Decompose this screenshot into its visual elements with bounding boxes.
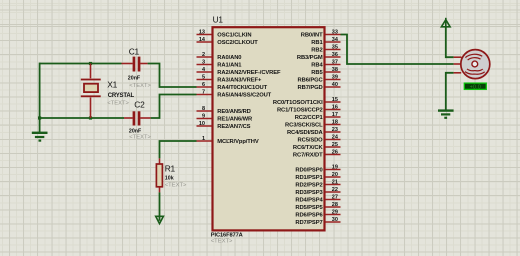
wire top rail OSC	[40, 63, 122, 65]
svg-text:+0.0: +0.0	[470, 84, 481, 90]
svg-text:R1: R1	[165, 163, 176, 173]
svg-text:24: 24	[332, 134, 339, 140]
U1 pin 24	[298, 134, 341, 143]
power symbol (+V)	[441, 18, 450, 28]
svg-text:6: 6	[202, 82, 205, 88]
svg-text:RC7/RX/DT: RC7/RX/DT	[293, 153, 323, 159]
U1 pin 1	[197, 136, 259, 145]
svg-text:36: 36	[332, 52, 338, 58]
U1 pin 28	[295, 202, 340, 211]
svg-text:33: 33	[332, 29, 338, 35]
svg-text:1: 1	[202, 136, 205, 142]
svg-text:RC0/T1OSO/T1CKI: RC0/T1OSO/T1CKI	[273, 100, 323, 106]
node junction bottom rail / crystal	[89, 116, 92, 119]
U1 pin 35	[311, 44, 340, 53]
part label PIC16F877A	[211, 232, 243, 244]
svg-text:28: 28	[332, 202, 338, 208]
U1 pin 38	[311, 67, 340, 76]
svg-text:OSC1/CLKIN: OSC1/CLKIN	[217, 33, 251, 39]
U1 pin 15	[273, 97, 341, 106]
U1 pin 5	[197, 74, 262, 83]
wire C1 to pin6	[148, 64, 197, 88]
svg-text:RD2/PSP2: RD2/PSP2	[295, 183, 322, 189]
node junction top rail / crystal	[89, 62, 92, 65]
svg-text:RA4/T0CKI/C1OUT: RA4/T0CKI/C1OUT	[217, 85, 267, 91]
svg-text:RD7/PSP7: RD7/PSP7	[295, 220, 322, 226]
svg-text:<TEXT>: <TEXT>	[129, 83, 151, 89]
U1 pin 16	[277, 104, 341, 113]
U1 pin 9	[197, 113, 253, 122]
svg-text:14: 14	[199, 37, 206, 43]
svg-text:10k: 10k	[165, 175, 174, 181]
svg-text:16: 16	[332, 104, 338, 110]
U1 pin 6	[197, 82, 268, 91]
U1 pin 8	[197, 106, 251, 115]
svg-text:13: 13	[199, 29, 205, 35]
svg-text:RC2/CCP1: RC2/CCP1	[295, 115, 324, 121]
svg-text:34: 34	[332, 37, 339, 43]
resistor R1	[156, 158, 162, 192]
U1 pin 19	[295, 164, 340, 173]
svg-text:RC4/SDI/SDA: RC4/SDI/SDA	[287, 130, 324, 136]
svg-text:RB5: RB5	[311, 70, 323, 76]
svg-text:<TEXT>: <TEXT>	[107, 100, 129, 106]
ground (below motor)	[438, 111, 454, 118]
svg-text:RC5/SDO: RC5/SDO	[298, 138, 324, 144]
label C1 20nF	[128, 46, 152, 89]
label R1 10k	[165, 163, 187, 188]
svg-text:RC6/TX/CK: RC6/TX/CK	[293, 145, 324, 151]
svg-text:RB2: RB2	[311, 48, 322, 54]
svg-text:MCLR/Vpp/THV: MCLR/Vpp/THV	[217, 139, 259, 145]
crystal X1	[81, 64, 101, 119]
svg-text:RC3/SCK/SCL: RC3/SCK/SCL	[285, 123, 323, 129]
svg-text:26: 26	[332, 149, 338, 155]
svg-text:RD1/PSP1: RD1/PSP1	[295, 175, 323, 181]
capacitor C2	[124, 111, 151, 125]
svg-text:37: 37	[332, 59, 338, 65]
svg-text:<TEXT>: <TEXT>	[211, 239, 233, 245]
svg-text:5: 5	[202, 74, 205, 80]
svg-text:38: 38	[332, 67, 338, 73]
svg-text:20nF: 20nF	[129, 128, 142, 134]
wire motor pin - to ground	[446, 73, 454, 110]
U1 pin 33	[301, 29, 341, 38]
svg-text:RE0/AN5/RD: RE0/AN5/RD	[217, 109, 250, 115]
svg-text:C2: C2	[134, 100, 145, 110]
svg-text:30: 30	[332, 217, 338, 223]
svg-text:2: 2	[202, 52, 205, 58]
U1 pin 20	[295, 172, 340, 181]
svg-text:39: 39	[332, 74, 338, 80]
svg-text:RA0/AN0: RA0/AN0	[217, 55, 241, 61]
svg-text:<TEXT>: <TEXT>	[165, 183, 187, 189]
U1 pin 26	[293, 149, 341, 158]
U1 pin 10	[197, 121, 251, 130]
microcontroller U1 body	[213, 27, 325, 230]
U1 pin 13	[197, 29, 252, 38]
U1 pin 25	[293, 142, 341, 151]
svg-text:CRYSTAL: CRYSTAL	[108, 93, 135, 99]
svg-text:RB7/PGD: RB7/PGD	[298, 85, 323, 91]
svg-text:RD4/PSP4: RD4/PSP4	[295, 198, 323, 204]
U1 pin 14	[197, 37, 259, 46]
svg-text:8: 8	[202, 106, 205, 112]
reference label U1	[213, 15, 224, 25]
svg-text:RD3/PSP3: RD3/PSP3	[295, 190, 323, 196]
U1 pin 17	[295, 112, 341, 121]
svg-text:U1: U1	[213, 15, 224, 25]
svg-text:RA1/AN1: RA1/AN1	[217, 63, 242, 69]
motor rpm display	[464, 83, 486, 90]
svg-text:RE1/AN6/WR: RE1/AN6/WR	[217, 117, 253, 123]
wire pin7 to C2	[151, 95, 197, 119]
U1 pin 2	[197, 52, 242, 61]
wire power to motor pin +	[446, 28, 454, 58]
U1 pin 3	[197, 59, 243, 68]
svg-text:RA3/AN3/VREF+: RA3/AN3/VREF+	[217, 78, 262, 84]
svg-text:RA2/AN2/VREF-/CVREF: RA2/AN2/VREF-/CVREF	[217, 70, 281, 76]
U1 pin 36	[297, 52, 341, 61]
U1 pin 21	[295, 179, 340, 188]
U1 pin 29	[295, 209, 340, 218]
wire pin33 to motor	[341, 35, 454, 65]
svg-text:10: 10	[199, 121, 205, 127]
svg-text:X1: X1	[107, 80, 117, 90]
svg-text:15: 15	[332, 97, 338, 103]
svg-text:27: 27	[332, 194, 338, 200]
capacitor C1	[122, 57, 148, 72]
label C2 20nF	[129, 100, 152, 141]
svg-text:29: 29	[332, 209, 338, 215]
wire bottom rail	[40, 117, 124, 119]
svg-text:PIC16F877A: PIC16F877A	[211, 232, 243, 238]
svg-text:RC1/T1OSI/CCP2: RC1/T1OSI/CCP2	[277, 108, 323, 114]
svg-text:C1: C1	[129, 46, 140, 56]
wire left rail	[39, 63, 41, 132]
svg-text:25: 25	[332, 142, 338, 148]
svg-text:RB1: RB1	[311, 40, 323, 46]
ground arrow (below R1)	[156, 216, 164, 223]
U1 pin 37	[311, 59, 340, 68]
svg-text:RB6/PGC: RB6/PGC	[298, 78, 324, 84]
U1 pin 7	[197, 89, 272, 98]
U1 pin 4	[197, 67, 282, 76]
svg-text:RA5/AN4/SS/C2OUT: RA5/AN4/SS/C2OUT	[217, 93, 271, 99]
svg-text:22: 22	[332, 187, 338, 193]
svg-text:RE2/AN7/CS: RE2/AN7/CS	[217, 124, 250, 130]
svg-text:20nF: 20nF	[128, 76, 141, 82]
svg-text:40: 40	[332, 82, 338, 88]
svg-text:23: 23	[332, 127, 338, 133]
node junction left rail / ground	[38, 116, 41, 119]
ground (left rail)	[32, 133, 48, 141]
U1 pin 18	[285, 119, 340, 128]
svg-text:OSC2/CLKOUT: OSC2/CLKOUT	[217, 40, 258, 46]
U1 pin 34	[311, 37, 340, 46]
svg-text:20: 20	[332, 172, 338, 178]
U1 pin 39	[298, 74, 341, 83]
svg-text:RD0/PSP0: RD0/PSP0	[295, 168, 322, 174]
wire MCLR to R1	[160, 141, 197, 158]
motor/fan M1	[454, 50, 490, 79]
svg-text:RD5/PSP5: RD5/PSP5	[295, 205, 323, 211]
svg-text:RB4: RB4	[311, 63, 323, 69]
U1 pin 27	[295, 194, 340, 203]
U1 pin 22	[295, 187, 340, 196]
U1 pin 23	[287, 127, 341, 136]
wire R1 to ground	[159, 192, 161, 220]
label X1 CRYSTAL	[107, 80, 134, 107]
svg-text:RB3/PGM: RB3/PGM	[297, 55, 323, 61]
svg-text:7: 7	[202, 89, 205, 95]
svg-text:17: 17	[332, 112, 338, 118]
svg-text:3: 3	[202, 59, 205, 65]
svg-text:18: 18	[332, 119, 338, 125]
svg-text:<TEXT>: <TEXT>	[129, 135, 151, 141]
svg-text:35: 35	[332, 44, 338, 50]
svg-text:21: 21	[332, 179, 338, 185]
svg-text:19: 19	[332, 164, 338, 170]
U1 pin 40	[298, 82, 341, 91]
U1 pin 30	[295, 217, 340, 226]
svg-text:RB0/INT: RB0/INT	[301, 33, 323, 39]
svg-text:9: 9	[202, 113, 205, 119]
svg-text:RD6/PSP6: RD6/PSP6	[295, 213, 323, 219]
